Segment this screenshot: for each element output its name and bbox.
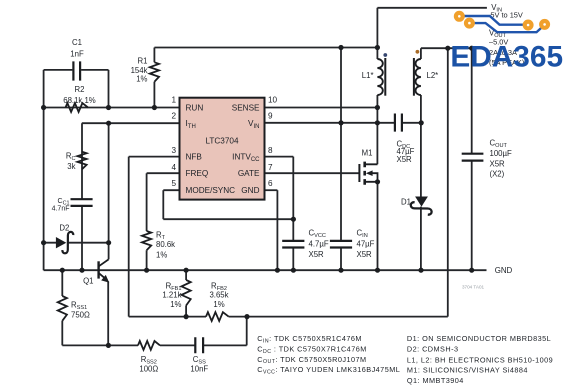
wire INTVCC pin8 row xyxy=(265,156,294,158)
inductor L1 phase dot xyxy=(383,53,387,57)
op-amp-block IC U1 LTC3704 body xyxy=(180,98,265,200)
wire VOUT node xyxy=(421,47,485,49)
wire GND pin6 vertical xyxy=(276,190,278,270)
diode D1 MBRD835L xyxy=(415,197,428,207)
svg-text:C1: C1 xyxy=(72,38,82,47)
node rail RSS1 xyxy=(60,268,65,273)
resistor RT 80.6k xyxy=(142,231,151,250)
capacitor COUT 100uF plates xyxy=(462,154,484,161)
svg-text:CVCC: TAIYO YUDEN LMK316BJ475M: CVCC: TAIYO YUDEN LMK316BJ475ML xyxy=(257,365,400,375)
svg-text:CIN: TDK C5750X5R1C476M: CIN: TDK C5750X5R1C476M xyxy=(257,334,362,344)
svg-text:L1, L2: BH ELECTRONICS BH510-1: L1, L2: BH ELECTRONICS BH510-1009 xyxy=(407,355,553,364)
notes right block xyxy=(407,334,553,385)
capacitor CDC 47uF plates xyxy=(395,114,402,132)
svg-text:R1: R1 xyxy=(138,57,148,66)
svg-text:100µF: 100µF xyxy=(490,149,513,158)
inductor L1 coil xyxy=(377,59,382,95)
svg-text:3: 3 xyxy=(171,146,176,155)
svg-text:8: 8 xyxy=(268,146,273,155)
node rail D1 xyxy=(418,268,423,273)
logo trace upper xyxy=(463,16,525,25)
svg-text:D2: CDMSH-3: D2: CDMSH-3 xyxy=(407,345,459,354)
logo trace lower xyxy=(473,23,542,32)
node L1 top xyxy=(375,45,380,50)
node rail pin6 xyxy=(275,268,280,273)
svg-text:4.7µF: 4.7µF xyxy=(309,239,329,248)
wire C1 top branch xyxy=(44,69,109,71)
svg-text:FREQ: FREQ xyxy=(186,169,209,178)
capacitor CVCC 4.7uF plates xyxy=(282,241,304,248)
wire MODE/SYNC vertical xyxy=(162,190,164,219)
svg-text:L2*: L2* xyxy=(427,71,439,80)
svg-text:EDA365: EDA365 xyxy=(450,40,563,73)
wire L1 M1 drain vertical xyxy=(376,8,378,165)
logo pad 1 xyxy=(456,13,463,20)
svg-text:COUT: TDK C5750X5R0J107M: COUT: TDK C5750X5R0J107M xyxy=(257,355,366,365)
wire NFB pin3 row xyxy=(129,156,180,158)
svg-text:154k: 154k xyxy=(131,66,148,75)
wire VIN pin9 row xyxy=(265,122,422,124)
wire MODE/SYNC pin5 row xyxy=(163,189,179,191)
node rail RT xyxy=(144,268,149,273)
node VOUT tap xyxy=(445,46,450,51)
wire GND pin6 row xyxy=(265,189,278,191)
wire SENSE pin10 row xyxy=(265,107,378,109)
wire left rail vertical xyxy=(43,70,45,270)
wire RSS1 vertical xyxy=(61,270,63,345)
wire R1 top to L1 top xyxy=(154,47,377,49)
svg-text:1.21k: 1.21k xyxy=(162,291,181,300)
node rail RFB1 xyxy=(184,268,189,273)
resistor RSS2 100 ohm xyxy=(138,341,160,350)
svg-text:RUN: RUN xyxy=(186,103,204,112)
wire ITH to Q1 collector vertical xyxy=(108,123,110,259)
wire CSS riser xyxy=(246,317,248,346)
node D2 cathode Q1 xyxy=(106,240,111,245)
node rail CVCC xyxy=(291,268,296,273)
svg-text:5: 5 xyxy=(171,179,176,188)
svg-text:1nF: 1nF xyxy=(70,50,84,59)
svg-text:R2: R2 xyxy=(75,85,85,94)
transistor M1 MOSFET xyxy=(359,162,377,185)
svg-text:68.1k 1%: 68.1k 1% xyxy=(63,96,96,105)
node CDC right xyxy=(419,120,424,125)
wire soft-start row xyxy=(62,344,246,346)
capacitor CSS 10nF plates xyxy=(195,337,203,353)
node rail M1 xyxy=(375,268,380,273)
logo pad 2 xyxy=(466,20,473,27)
svg-text:1: 1 xyxy=(171,96,176,105)
diode D1 schottky bar xyxy=(411,202,432,215)
node D2 anode xyxy=(41,240,46,245)
IC U1 pin names xyxy=(186,103,261,195)
wire ITH pin2 row xyxy=(82,122,180,124)
logo pad 4 xyxy=(541,21,548,28)
svg-text:GND: GND xyxy=(495,266,513,275)
node SENSE drain xyxy=(375,105,380,110)
svg-text:3704 TA01: 3704 TA01 xyxy=(462,285,484,290)
node VIN pin9 CIN xyxy=(338,120,343,125)
node rail CC1 xyxy=(79,268,84,273)
node ITH branch xyxy=(106,121,111,126)
svg-text:4: 4 xyxy=(171,163,176,172)
wire L2 D1 vertical xyxy=(420,48,422,270)
diode D2 CDMSH-3 xyxy=(56,237,66,248)
svg-text:1%: 1% xyxy=(156,250,167,259)
svg-text:X5R: X5R xyxy=(490,159,506,168)
resistor RFB2 3.65k xyxy=(206,312,229,321)
svg-text:L1*: L1* xyxy=(362,71,374,80)
resistor R2 68.1k xyxy=(66,103,89,112)
wire RFB1 vertical xyxy=(185,270,187,316)
svg-text:1%: 1% xyxy=(213,300,224,309)
node COUT top xyxy=(469,46,474,51)
wire INTVCC CVCC vertical xyxy=(292,157,294,271)
svg-text:10nF: 10nF xyxy=(190,364,208,373)
node CDC left xyxy=(375,120,380,125)
wire C1 right vertical xyxy=(108,70,110,108)
wire R1 vertical xyxy=(153,48,155,108)
wire RUN pin1 row xyxy=(44,107,180,109)
svg-text:Q1: MMBT3904: Q1: MMBT3904 xyxy=(407,376,464,385)
wire VOUT feedback vertical xyxy=(447,48,449,316)
svg-text:7: 7 xyxy=(268,163,273,172)
resistor RSS1 750 ohm xyxy=(58,296,67,321)
svg-text:10: 10 xyxy=(268,96,278,105)
svg-text:1%: 1% xyxy=(170,300,181,309)
node RFB2 CSS xyxy=(244,314,249,319)
svg-text:X5R: X5R xyxy=(397,155,413,164)
wire NFB feedback lower xyxy=(129,316,448,318)
wire VIN top rail xyxy=(377,7,487,9)
pin numbers xyxy=(171,96,277,189)
svg-text:X5R: X5R xyxy=(357,250,373,259)
node CVCC loop xyxy=(291,217,296,222)
wire D2 branch xyxy=(44,242,109,244)
svg-text:GND: GND xyxy=(241,186,259,195)
svg-text:COUT: COUT xyxy=(490,139,508,149)
diode D2 schottky bar xyxy=(62,232,73,253)
node rail COUT xyxy=(469,268,474,273)
svg-text:LTC3704: LTC3704 xyxy=(205,136,239,145)
svg-text:4.7nF: 4.7nF xyxy=(52,205,70,212)
inductor L1 core bar xyxy=(384,58,386,96)
capacitor C1 1nF plates xyxy=(73,61,80,80)
svg-text:SENSE: SENSE xyxy=(232,103,260,112)
svg-text:CIN: CIN xyxy=(357,228,368,238)
wire M1 source vertical xyxy=(377,182,379,270)
svg-text:GATE: GATE xyxy=(238,169,260,178)
svg-text:6: 6 xyxy=(268,179,273,188)
resistor RFB1 1.21k xyxy=(182,280,191,306)
svg-text:D2: D2 xyxy=(59,224,69,233)
svg-text:1%: 1% xyxy=(136,75,147,84)
capacitor CIN 47uF plates xyxy=(330,241,352,248)
wire Q1 emitter vertical xyxy=(107,281,109,345)
node Q1 emitter SS xyxy=(106,343,111,348)
wire RC CC1 vertical xyxy=(81,123,83,270)
transistor M1 arrow xyxy=(366,170,373,176)
svg-text:5V to 15V: 5V to 15V xyxy=(490,11,523,20)
node RUN left xyxy=(41,105,46,110)
svg-text:MODE/SYNC: MODE/SYNC xyxy=(186,186,236,195)
wire CIN vertical xyxy=(340,48,342,271)
inductor L2 core bar xyxy=(413,58,415,96)
logo pad 3 xyxy=(525,22,532,29)
transistor Q1 emitter arrow xyxy=(101,275,109,283)
svg-text:CDC : TDK C5750X7R1C476M: CDC : TDK C5750X7R1C476M xyxy=(257,345,366,355)
wire mode-sync loop xyxy=(163,218,293,220)
svg-text:NFB: NFB xyxy=(186,153,203,162)
svg-text:750Ω: 750Ω xyxy=(71,310,90,319)
node RFB1 bottom xyxy=(184,314,189,319)
svg-text:9: 9 xyxy=(268,111,273,120)
svg-text:D1: ON SEMICONDUCTOR MBRD835L: D1: ON SEMICONDUCTOR MBRD835L xyxy=(407,334,551,343)
notes left block xyxy=(257,334,400,375)
svg-text:80.6k: 80.6k xyxy=(156,240,175,249)
svg-text:CVCC: CVCC xyxy=(309,228,326,238)
svg-text:Q1: Q1 xyxy=(83,277,93,286)
resistor R1 154k xyxy=(150,62,159,81)
wire FREQ pin4 row xyxy=(147,172,180,174)
inductor L2 coil xyxy=(416,59,421,95)
node R1 bottom xyxy=(152,105,157,110)
svg-text:100Ω: 100Ω xyxy=(139,364,158,373)
svg-text:RC: RC xyxy=(66,152,76,162)
inductor L2 phase dot xyxy=(416,50,420,54)
svg-text:M1: M1 xyxy=(362,148,373,157)
svg-text:3k: 3k xyxy=(67,162,75,171)
node rail CIN xyxy=(338,268,343,273)
wire GATE pin7 row xyxy=(265,172,360,174)
transistor Q1 NPN xyxy=(99,259,109,280)
svg-text:47µF: 47µF xyxy=(357,239,375,248)
wire GND main rail xyxy=(44,269,487,271)
wire FREQ RT vertical xyxy=(146,173,148,270)
node VIN CIN top xyxy=(338,45,343,50)
svg-text:3.65k: 3.65k xyxy=(209,291,228,300)
svg-text:M1: SILICONICS/VISHAY Si4884: M1: SILICONICS/VISHAY Si4884 xyxy=(407,366,528,375)
node C1 right corner xyxy=(106,105,111,110)
wire NFB pin3 vertical xyxy=(128,157,130,317)
svg-text:2: 2 xyxy=(171,111,176,120)
svg-text:X5R: X5R xyxy=(309,250,325,259)
wire COUT vertical xyxy=(471,48,473,270)
svg-text:(X2): (X2) xyxy=(490,169,505,178)
capacitor CC1 4.7nF plates xyxy=(71,199,93,206)
svg-text:D1: D1 xyxy=(401,198,411,207)
node M1 source xyxy=(375,179,380,184)
resistor RC 3k xyxy=(77,152,86,170)
